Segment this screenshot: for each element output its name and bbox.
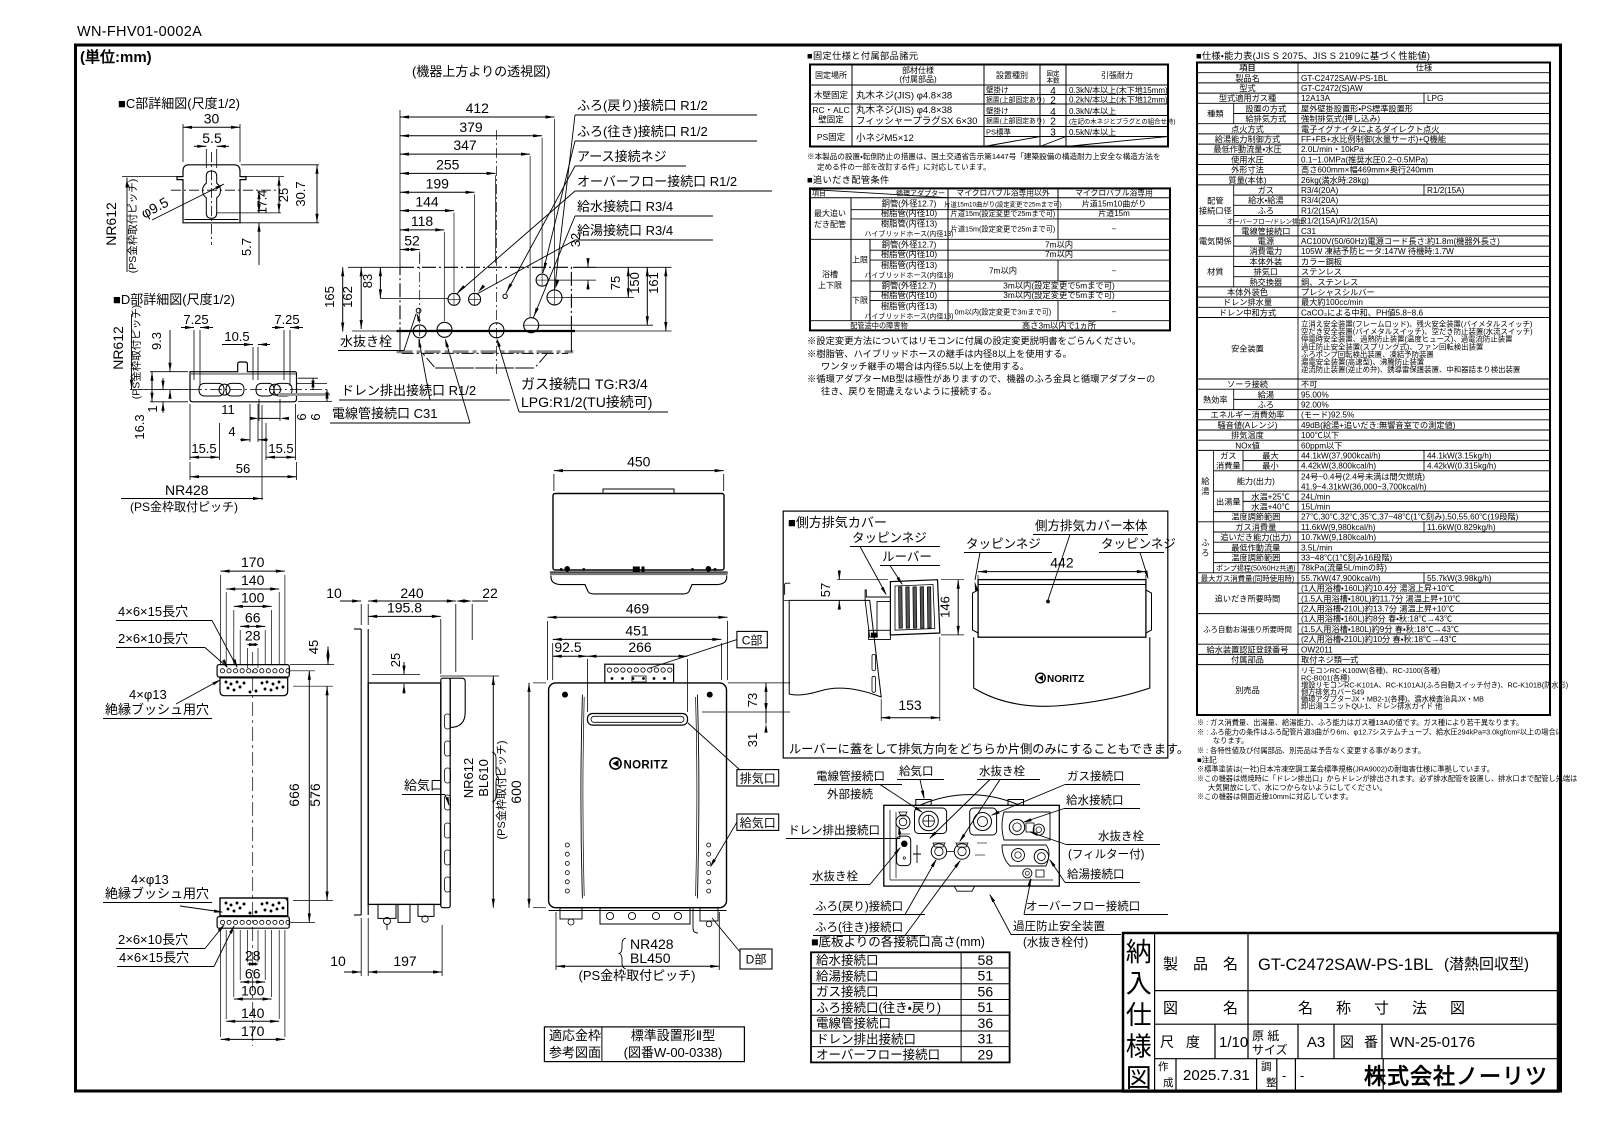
svg-text:プレシャスシルバー: プレシャスシルバー	[1301, 288, 1375, 297]
svg-text:CaCO₃による中和、PH値5.8~8.6: CaCO₃による中和、PH値5.8~8.6	[1301, 307, 1424, 317]
svg-text:0.5kN/本以上: 0.5kN/本以上	[1069, 127, 1116, 137]
svg-text:ガス: ガス	[1258, 185, 1274, 195]
svg-text:水抜き栓: 水抜き栓	[812, 869, 858, 883]
svg-text:電線管接続口: 電線管接続口	[1241, 226, 1290, 236]
svg-text:エネルギー消費効率: エネルギー消費効率	[1211, 410, 1285, 420]
svg-text:30.7: 30.7	[293, 181, 308, 206]
svg-text:7.25: 7.25	[274, 312, 299, 327]
svg-text:ハイブリッドホース(内径13): ハイブリッドホース(内径13)	[865, 312, 954, 321]
svg-text:4×6×15長穴: 4×6×15長穴	[118, 604, 188, 619]
svg-text:外形寸法: 外形寸法	[1231, 165, 1264, 175]
svg-text:2×6×10長穴: 2×6×10長穴	[118, 631, 188, 646]
svg-text:樹脂管(内径10): 樹脂管(内径10)	[881, 290, 937, 300]
bottom view gas connector	[970, 808, 997, 835]
svg-text:(2人用浴槽・210L)約10分 春・秋:18℃→43℃: (2人用浴槽・210L)約10分 春・秋:18℃→43℃	[1301, 634, 1457, 644]
svg-text:ふろ(戻り)接続口: ふろ(戻り)接続口	[815, 899, 903, 913]
svg-text:給水・給湯: 給水・給湯	[1248, 195, 1284, 205]
D-part left slots	[199, 383, 224, 396]
svg-text:追いだき所要時間: 追いだき所要時間	[1215, 593, 1281, 603]
svg-text:騒音値(Aレンジ): 騒音値(Aレンジ)	[1217, 420, 1277, 430]
svg-text:ルーバー: ルーバー	[882, 550, 932, 564]
svg-text:固定: 固定	[1047, 70, 1061, 78]
svg-text:10.5: 10.5	[224, 329, 249, 344]
top view lower row holes: gas	[489, 323, 504, 338]
svg-text:11.6kW(9,980kcal/h): 11.6kW(9,980kcal/h)	[1301, 523, 1376, 532]
svg-text:引張耐力: 引張耐力	[1101, 70, 1133, 80]
svg-text:ドレン排出接続口 R1/2: ドレン排出接続口 R1/2	[341, 383, 476, 398]
svg-text:(1人用浴槽・160L)約8分 春・秋:18℃→43℃: (1人用浴槽・160L)約8分 春・秋:18℃→43℃	[1301, 614, 1452, 624]
svg-text:最大約100cc/min: 最大約100cc/min	[1301, 297, 1363, 307]
C-part dim 17.4	[258, 190, 260, 213]
svg-text:30: 30	[204, 110, 220, 126]
svg-text:ガス接続口: ガス接続口	[816, 984, 879, 999]
svg-text:15L/min: 15L/min	[1301, 503, 1331, 512]
svg-text:水温+40℃: 水温+40℃	[1251, 502, 1289, 512]
svg-text:7m以内: 7m以内	[1045, 240, 1073, 250]
bottom view bottom tab	[954, 886, 975, 891]
fixing table diagonal strikeouts	[984, 137, 1040, 147]
upper plate ladder ext lines	[220, 575, 222, 665]
svg-text:水抜き栓: 水抜き栓	[1098, 829, 1144, 843]
svg-text:屋外壁掛設置形・PS標準設置形: 屋外壁掛設置形・PS標準設置形	[1301, 103, 1413, 113]
svg-text:33~48℃(1℃刻み16段階): 33~48℃(1℃刻み16段階)	[1301, 553, 1393, 563]
svg-text:41.9~4.31kW(36,000~3,700kcal/h: 41.9~4.31kW(36,000~3,700kcal/h)	[1301, 482, 1427, 491]
D-part bracket outline	[190, 362, 297, 402]
side cover body	[978, 580, 1146, 638]
svg-text:下限: 下限	[852, 296, 868, 305]
top view vertical centerlines	[419, 254, 421, 345]
svg-text:GT-C2472SAW-PS-1BL: GT-C2472SAW-PS-1BL	[1258, 956, 1433, 974]
piping table value col divider	[1057, 198, 1059, 240]
svg-text:170: 170	[241, 554, 265, 570]
bottom view drain connector	[896, 815, 910, 829]
svg-text:給湯接続口: 給湯接続口	[816, 968, 879, 983]
svg-text:調: 調	[1261, 1061, 1272, 1073]
svg-text:15.5: 15.5	[191, 441, 216, 456]
svg-text:フィッシャープラグSX 6×30: フィッシャープラグSX 6×30	[856, 115, 977, 127]
front view dim 469	[548, 616, 728, 618]
bottom view water inlet assembly	[1002, 812, 1050, 840]
svg-text:(PS金枠取付ピッチ): (PS金枠取付ピッチ)	[578, 968, 695, 983]
svg-text:3m以内(設定変更で5mまで可): 3m以内(設定変更で5mまで可)	[1003, 281, 1115, 291]
svg-text:水温+25℃: 水温+25℃	[1251, 491, 1289, 501]
svg-text:使用水圧: 使用水圧	[1231, 154, 1264, 164]
svg-text:標準設置形Ⅱ型: 標準設置形Ⅱ型	[631, 1028, 715, 1043]
svg-text:73: 73	[745, 693, 760, 707]
svg-text:11.6kW(0.829kg/h): 11.6kW(0.829kg/h)	[1427, 523, 1496, 532]
C-part keyhole slot	[203, 171, 221, 218]
svg-text:NORITZ: NORITZ	[624, 760, 669, 772]
svg-text:※ : ガス消費量、出湯量、給湯能力、ふろ能力はガス種13A: ※ : ガス消費量、出湯量、給湯能力、ふろ能力はガス種13Aの値です。ガス種によ…	[1197, 718, 1523, 727]
svg-text:壁掛け: 壁掛け	[986, 85, 1009, 95]
top view lower row holes: drain	[413, 325, 426, 338]
svg-text:消費量: 消費量	[1216, 461, 1241, 471]
svg-text:本体外装色: 本体外装色	[1227, 287, 1268, 297]
svg-text:ハイブリッドホース(内径13): ハイブリッドホース(内径13)	[865, 271, 954, 280]
svg-text:GT-C2472(S)AW: GT-C2472(S)AW	[1301, 84, 1363, 93]
bottom view bath outgoing valve	[954, 844, 969, 859]
top view flange dashed	[397, 350, 574, 353]
svg-text:給気口: 給気口	[899, 764, 934, 778]
svg-text:ガス消費量: ガス消費量	[1235, 522, 1276, 532]
svg-text:※標準塗装は(一社)日本冷凍空調工業会標準規格(JRA900: ※標準塗装は(一社)日本冷凍空調工業会標準規格(JRA9002)の耐塩害仕様に準…	[1197, 765, 1494, 774]
bottom view top tabs	[916, 800, 931, 806]
bottom view small drain plug left	[897, 836, 911, 866]
svg-text:165: 165	[322, 286, 337, 308]
svg-text:樹脂管(内径10): 樹脂管(内径10)	[881, 249, 937, 259]
bottom view cross mark	[913, 845, 921, 863]
svg-text:266: 266	[628, 639, 652, 655]
svg-text:−: −	[1112, 267, 1117, 276]
svg-text:ワンタッチ継手の場合は内径5.5以上を使用する。: ワンタッチ継手の場合は内径5.5以上を使用する。	[821, 361, 1029, 372]
svg-text:GT-C2472SAW-PS-1BL: GT-C2472SAW-PS-1BL	[1301, 74, 1388, 83]
lower plate ladder dims	[247, 963, 258, 965]
svg-text:ふろ(往き)接続口 R1/2: ふろ(往き)接続口 R1/2	[577, 124, 708, 139]
bottom view top arc	[920, 795, 1020, 806]
svg-text:75: 75	[608, 276, 623, 290]
svg-text:197: 197	[393, 953, 417, 969]
svg-text:100: 100	[241, 589, 265, 605]
svg-text:なります。: なります。	[1213, 736, 1248, 745]
svg-text:だき配管: だき配管	[814, 219, 846, 229]
svg-text:オーバーフロー接続口 R1/2: オーバーフロー接続口 R1/2	[577, 174, 737, 189]
svg-text:3.5L/min: 3.5L/min	[1301, 543, 1333, 552]
svg-text:寸: 寸	[1374, 1000, 1389, 1017]
front view exhaust label	[688, 723, 740, 770]
svg-text:成: 成	[1163, 1077, 1174, 1089]
svg-text:4: 4	[228, 424, 235, 439]
svg-text:即出湯ユニットQU-1、ドレン排水ガイド 他: 即出湯ユニットQU-1、ドレン排水ガイド 他	[1301, 701, 1442, 710]
svg-text:57: 57	[818, 583, 833, 597]
svg-text:451: 451	[625, 622, 649, 638]
svg-text:66: 66	[245, 966, 261, 982]
svg-text:適応金枠: 適応金枠	[549, 1028, 601, 1043]
svg-text:(左記の木ネジとプラグとの組合せ時): (左記の木ネジとプラグとの組合せ時)	[1069, 117, 1175, 126]
svg-text:3: 3	[1050, 128, 1056, 139]
svg-text:往き、戻りを間違えないように接続する。: 往き、戻りを間違えないように接続する。	[821, 386, 997, 397]
upper mounting plate	[220, 678, 288, 696]
svg-text:ふろ: ふろ	[1258, 401, 1274, 410]
svg-text:ふろ(戻り)接続口 R1/2: ふろ(戻り)接続口 R1/2	[577, 98, 708, 113]
svg-text:■追いだき配管条件: ■追いだき配管条件	[807, 174, 890, 185]
front view NORITZ logo	[610, 758, 668, 772]
svg-text:(1人用浴槽・160L)約10.4分 湯温上昇+10℃: (1人用浴槽・160L)約10.4分 湯温上昇+10℃	[1301, 583, 1454, 593]
side cover side tabs	[973, 590, 979, 633]
svg-text:56: 56	[236, 461, 250, 476]
svg-text:ろ: ろ	[1201, 548, 1209, 557]
svg-text:給気口: 給気口	[740, 815, 776, 830]
svg-text:質量(本体): 質量(本体)	[1228, 175, 1266, 185]
side cover left fig louver	[890, 580, 939, 635]
svg-text:17.4: 17.4	[256, 190, 270, 214]
svg-text:■固定仕様と付属部品諸元: ■固定仕様と付属部品諸元	[807, 50, 918, 61]
svg-text:6: 6	[308, 413, 323, 420]
svg-text:片道15m(設定変更で25mまで可): 片道15m(設定変更で25mまで可)	[951, 225, 1056, 234]
svg-text:小ネジM5×12: 小ネジM5×12	[856, 133, 914, 144]
svg-text:100℃以下: 100℃以下	[1301, 431, 1339, 440]
upper mounting rail	[217, 665, 289, 677]
svg-text:162: 162	[340, 286, 355, 308]
svg-text:上下限: 上下限	[818, 281, 842, 290]
D-part grey plate edge	[278, 393, 330, 396]
svg-text:オーバーフロー接続口: オーバーフロー接続口	[816, 1047, 940, 1062]
spec table hot-water group rows 33-39	[1213, 450, 1215, 521]
svg-text:ルーバーに蓋をして排気方向をどちらか片側のみにすることもでき: ルーバーに蓋をして排気方向をどちらか片側のみにすることもできます。	[789, 741, 1189, 756]
top view upper row holes: hot water outlet	[469, 293, 481, 305]
svg-text:項目: 項目	[1239, 64, 1255, 73]
svg-text:入: 入	[1126, 969, 1152, 999]
top view body outline phantom	[400, 267, 571, 331]
side view dim 195.8	[368, 615, 441, 617]
svg-text:6: 6	[294, 413, 309, 420]
svg-text:点火方式: 点火方式	[1231, 124, 1264, 134]
svg-text:電気関係: 電気関係	[1199, 236, 1232, 246]
svg-text:※ : 各特性値及び付属部品、別売品は予告なく変更する事があ: ※ : 各特性値及び付属部品、別売品は予告なく変更する事があります。	[1197, 746, 1425, 755]
svg-text:定める件の一部を改訂する件」に対応しています。: 定める件の一部を改訂する件」に対応しています。	[817, 162, 991, 172]
svg-text:105W 凍結予防ヒータ:147W 待機時:1.7W: 105W 凍結予防ヒータ:147W 待機時:1.7W	[1301, 246, 1454, 256]
svg-text:給湯能力制御方式: 給湯能力制御方式	[1215, 134, 1281, 144]
svg-text:銅、ステンレス: 銅、ステンレス	[1301, 277, 1358, 287]
svg-text:熱交換器: 熱交換器	[1249, 277, 1282, 287]
plan view body	[553, 494, 724, 571]
svg-text:型式: 型式	[1239, 83, 1255, 93]
svg-text:52: 52	[404, 233, 420, 249]
spec table bath group rows 39-43	[1213, 522, 1215, 573]
svg-text:9.3: 9.3	[149, 332, 164, 350]
svg-text:LPG:R1/2(TU接続可): LPG:R1/2(TU接続可)	[521, 394, 652, 410]
svg-text:NR612: NR612	[103, 202, 119, 246]
svg-text:24号~0.4号(2.4号未満は間欠燃焼): 24号~0.4号(2.4号未満は間欠燃焼)	[1301, 471, 1425, 481]
C-part bracket outline	[177, 165, 246, 223]
front view bottom connections	[549, 910, 727, 912]
side cover left fig connector box	[869, 630, 891, 639]
title block rows	[1155, 990, 1558, 992]
svg-text:仕: 仕	[1126, 1000, 1152, 1030]
svg-text:給湯: 給湯	[1258, 389, 1274, 399]
svg-text:NOx値: NOx値	[1235, 440, 1260, 450]
svg-text:※循環アダプターMB型は極性がありますので、機器のふろ金具と: ※循環アダプターMB型は極性がありますので、機器のふろ金具と循環アダプターの	[807, 373, 1155, 384]
svg-text:(1.5人用浴槽・180L)約11.7分 湯温上昇+10℃: (1.5人用浴槽・180L)約11.7分 湯温上昇+10℃	[1301, 593, 1460, 603]
bottom view overpressure valve	[1023, 869, 1032, 878]
spec table grouped rows	[1233, 103, 1235, 123]
svg-text:木壁固定: 木壁固定	[814, 90, 849, 100]
svg-text:PS固定: PS固定	[817, 132, 846, 142]
svg-text:25: 25	[388, 653, 403, 667]
svg-text:OW2011: OW2011	[1301, 645, 1333, 654]
svg-text:(機器上方よりの透視図): (機器上方よりの透視図)	[412, 64, 550, 79]
svg-text:25: 25	[276, 188, 291, 202]
svg-text:設置種別: 設置種別	[996, 70, 1028, 80]
svg-text:据置(上部固定あり): 据置(上部固定あり)	[986, 95, 1045, 104]
svg-text:ガス接続口 TG:R3/4: ガス接続口 TG:R3/4	[521, 376, 648, 392]
bottom view tiny text marks	[900, 833, 910, 835]
svg-text:電子イグナイタによるダイレクト点火: 電子イグナイタによるダイレクト点火	[1301, 124, 1439, 134]
side cover section box	[783, 511, 1168, 758]
svg-text:本体外装: 本体外装	[1249, 256, 1282, 266]
svg-text:NR612: NR612	[461, 758, 476, 798]
svg-text:10: 10	[330, 953, 346, 969]
side cover left fig louver slats	[899, 587, 903, 628]
svg-text:4×φ13: 4×φ13	[131, 872, 169, 887]
C-part ext lines right	[216, 212, 281, 214]
front view top corner screws	[562, 692, 567, 697]
plan view flange marks	[560, 568, 562, 570]
bottom view bath return valve	[931, 844, 946, 859]
svg-text:納: 納	[1126, 937, 1152, 967]
svg-text:(図番W-00-0338): (図番W-00-0338)	[624, 1045, 723, 1060]
svg-text:56: 56	[978, 983, 994, 999]
C-part dim 25	[278, 177, 280, 213]
svg-text:マイクロバブル浴専用以外: マイクロバブル浴専用以外	[956, 188, 1050, 198]
svg-text:能力(出力): 能力(出力)	[1237, 476, 1275, 486]
plan view top tab	[603, 489, 674, 494]
svg-text:最大ガス消費量(同時使用時): 最大ガス消費量(同時使用時)	[1201, 574, 1295, 583]
svg-text:配管: 配管	[1207, 195, 1223, 205]
svg-text:最小: 最小	[1262, 461, 1278, 471]
side view front door	[441, 678, 450, 908]
svg-text:電源: 電源	[1258, 237, 1274, 246]
svg-text:195.8: 195.8	[387, 599, 422, 615]
svg-text:-: -	[1300, 1068, 1304, 1083]
side view body	[368, 683, 441, 904]
top view lower trapezoid phantom	[402, 353, 569, 368]
svg-text:450: 450	[627, 454, 651, 470]
svg-text:※この機器は燃焼時に「ドレン排出口」からドレンが排出されます: ※この機器は燃焼時に「ドレン排出口」からドレンが排出されます。必ず排水配管を設置…	[1197, 774, 1577, 783]
svg-text:材質: 材質	[1207, 267, 1223, 277]
svg-text:2: 2	[1050, 96, 1056, 107]
svg-text:27℃,30℃,32℃,35℃,37~48℃(1℃刻み),5: 27℃,30℃,32℃,35℃,37~48℃(1℃刻み),50,55,60℃(1…	[1301, 512, 1519, 522]
svg-text:0.1~1.0MPa(推奨水圧0.2~0.5MPa): 0.1~1.0MPa(推奨水圧0.2~0.5MPa)	[1301, 154, 1428, 164]
svg-text:図: 図	[1163, 1000, 1178, 1017]
svg-text:最大: 最大	[1262, 451, 1278, 461]
svg-text:固定場所: 固定場所	[815, 70, 847, 80]
svg-text:NORITZ: NORITZ	[1047, 674, 1084, 685]
svg-text:ドレン排出接続口: ドレン排出接続口	[816, 1031, 916, 1046]
svg-text:給水接続口: 給水接続口	[1066, 793, 1124, 807]
svg-text:オーバーフロー/ドレン排出: オーバーフロー/ドレン排出	[1227, 217, 1305, 226]
title block product name row	[1247, 933, 1249, 1024]
spec table LPG splits	[1423, 93, 1425, 103]
svg-text:不可: 不可	[1301, 380, 1317, 389]
svg-text:55.7kW(47,900kcal/h): 55.7kW(47,900kcal/h)	[1301, 574, 1381, 583]
svg-text:部材仕様: 部材仕様	[902, 65, 934, 75]
svg-text:給: 給	[1201, 476, 1210, 486]
svg-text:5.7: 5.7	[239, 238, 254, 256]
svg-text:412: 412	[466, 100, 490, 116]
svg-text:樹脂管(内径13): 樹脂管(内径13)	[881, 260, 937, 270]
svg-text:150: 150	[627, 272, 642, 294]
svg-text:2.0L/min・10kPa: 2.0L/min・10kPa	[1301, 145, 1364, 154]
svg-text:電線管接続口: 電線管接続口	[816, 769, 885, 783]
svg-text:4.42kW(3,800kcal/h): 4.42kW(3,800kcal/h)	[1301, 462, 1376, 471]
title block outer	[1123, 933, 1558, 1092]
svg-text:347: 347	[453, 137, 477, 153]
svg-text:片道15m10曲がり(設定変更で25mまで可): 片道15m10曲がり(設定変更で25mまで可)	[944, 200, 1062, 209]
svg-text:図: 図	[1126, 1063, 1152, 1093]
svg-text:給水接続口: 給水接続口	[816, 953, 879, 968]
svg-text:LPG: LPG	[1427, 94, 1443, 103]
svg-text:AC100V(50/60Hz)電源コード長さ:約1.8m(機: AC100V(50/60Hz)電源コード長さ:約1.8m(機器外長さ)	[1301, 236, 1500, 246]
svg-text:(PS金枠取付ピッチ): (PS金枠取付ピッチ)	[130, 500, 238, 514]
svg-text:255: 255	[436, 156, 460, 172]
svg-text:11: 11	[221, 402, 235, 417]
svg-text:壁固定: 壁固定	[818, 115, 844, 125]
svg-text:R3/4(20A): R3/4(20A)	[1301, 186, 1339, 195]
svg-text:0.3kN/本以上: 0.3kN/本以上	[1069, 106, 1116, 116]
svg-text:140: 140	[241, 1005, 265, 1021]
svg-text:丸木ネジ(JIS) φ4.8×38: 丸木ネジ(JIS) φ4.8×38	[856, 104, 952, 116]
svg-text:熱効率: 熱効率	[1203, 394, 1228, 404]
svg-text:水抜き栓: 水抜き栓	[979, 764, 1025, 778]
svg-text:電線管接続口: 電線管接続口	[816, 1016, 891, 1031]
svg-text:■D部詳細図(尺度1/2): ■D部詳細図(尺度1/2)	[113, 292, 235, 307]
svg-text:アース接続ネジ: アース接続ネジ	[577, 149, 667, 164]
svg-text:丸木ネジ(JIS) φ4.8×38: 丸木ネジ(JIS) φ4.8×38	[856, 90, 952, 102]
svg-text:ふろ自動お湯張り所要時間: ふろ自動お湯張り所要時間	[1203, 625, 1292, 634]
piping table left col dividers	[850, 198, 852, 321]
svg-text:NR428: NR428	[165, 482, 209, 498]
svg-text:度: 度	[1186, 1034, 1200, 1050]
svg-text:給湯接続口 R3/4: 給湯接続口 R3/4	[577, 223, 673, 238]
svg-text:銅管(外径12.7): 銅管(外径12.7)	[882, 240, 937, 250]
svg-text:C部: C部	[742, 633, 763, 647]
svg-text:ふろ(往き)接続口: ふろ(往き)接続口	[815, 920, 903, 934]
front view body	[549, 683, 727, 908]
svg-text:BL610: BL610	[476, 759, 491, 797]
piping table header diagonal	[810, 189, 948, 197]
svg-text:ドレン排出接続口: ドレン排出接続口	[788, 823, 880, 837]
svg-text:仕様: 仕様	[1416, 63, 1432, 73]
top view bottom thick line	[397, 330, 575, 332]
svg-text:4×6×15長穴: 4×6×15長穴	[119, 950, 189, 965]
svg-text:16.3: 16.3	[132, 414, 147, 439]
svg-text:1/10: 1/10	[1219, 1034, 1248, 1051]
svg-text:0.2kN/本以上(木下地12mm): 0.2kN/本以上(木下地12mm)	[1069, 95, 1168, 105]
svg-text:樹脂管(内径13): 樹脂管(内径13)	[881, 219, 937, 229]
svg-text:4×φ13: 4×φ13	[129, 687, 167, 702]
lower mounting plate	[220, 898, 288, 916]
svg-text:整: 整	[1266, 1076, 1277, 1089]
svg-text:51: 51	[978, 999, 994, 1015]
svg-text:NR612: NR612	[110, 326, 126, 370]
svg-text:側方排気カバー本体: 側方排気カバー本体	[1035, 518, 1148, 533]
svg-text:給水装置認証登録番号: 給水装置認証登録番号	[1207, 644, 1289, 654]
svg-text:設置の方式: 設置の方式	[1245, 103, 1286, 113]
title block bottom row	[1175, 1059, 1177, 1092]
svg-text:WN-FHV01-0002A: WN-FHV01-0002A	[77, 24, 202, 40]
svg-text:ポンプ揚程(50/60Hz共通): ポンプ揚程(50/60Hz共通)	[1216, 564, 1296, 573]
D-part centerline	[130, 389, 330, 391]
svg-text:170: 170	[241, 1023, 265, 1039]
side view bottom fittings	[378, 904, 396, 918]
svg-text:3m以内(設定変更で5mまで可): 3m以内(設定変更で5mまで可)	[1003, 290, 1115, 300]
svg-text:最大追い: 最大追い	[814, 208, 846, 218]
svg-text:オーバーフロー接続口: オーバーフロー接続口	[1026, 899, 1140, 913]
svg-text:-: -	[1282, 1068, 1286, 1083]
svg-text:タッピンネジ: タッピンネジ	[1101, 537, 1176, 551]
svg-text:絶縁ブッシュ用穴: 絶縁ブッシュ用穴	[105, 702, 209, 717]
svg-text:(1.5人用浴槽・180L)約9分 春・秋:18℃→43℃: (1.5人用浴槽・180L)約9分 春・秋:18℃→43℃	[1301, 624, 1459, 634]
svg-text:24L/min: 24L/min	[1301, 492, 1331, 501]
svg-text:追いだき能力(出力): 追いだき能力(出力)	[1220, 532, 1291, 542]
spec table outer grid	[1197, 63, 1550, 716]
svg-text:名: 名	[1298, 1000, 1313, 1017]
top view earth screw hole	[503, 294, 507, 298]
svg-text:(PS金枠取付ピッチ): (PS金枠取付ピッチ)	[494, 741, 508, 840]
svg-text:■側方排気カバー: ■側方排気カバー	[788, 515, 887, 530]
C-part dim 30	[182, 124, 184, 162]
svg-text:(潜熱回収型): (潜熱回収型)	[1444, 956, 1529, 973]
